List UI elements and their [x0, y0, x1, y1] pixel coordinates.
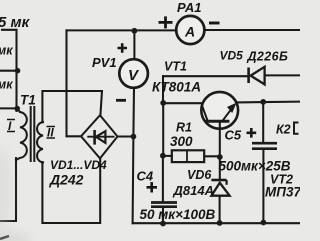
C4 plus sign: [147, 182, 158, 192]
svg-text:мк: мк: [0, 44, 13, 58]
wire: ammeter to right edge: [205, 29, 300, 31]
wire: base node to VD6: [219, 157, 221, 179]
svg-text:R1: R1: [176, 121, 192, 135]
diode VD5 triangle: [251, 67, 265, 85]
node: bus VD6 junction: [217, 220, 223, 226]
wire: left cap bank top: [2, 30, 17, 111]
svg-text:VD6: VD6: [187, 168, 212, 182]
svg-text:VD5: VD5: [220, 49, 244, 63]
svg-text:мк: мк: [0, 78, 13, 92]
node: collector rail junction: [160, 100, 166, 106]
transformer T1 primary winding I: [16, 109, 27, 160]
capacitor C5 bottom plate: [252, 147, 277, 150]
capacitor C4 top plate: [151, 201, 177, 204]
transformer T1 secondary winding II: [37, 122, 43, 163]
wire: + rail to C4: [162, 156, 164, 201]
bottom-left corner mark: [0, 236, 9, 239]
wire: bridge - output, right vertex to x133: [118, 135, 134, 137]
diode VD5 cathode bar: [247, 68, 250, 84]
wire: top dc bus to ammeter: [67, 29, 176, 31]
zener VD6 tick: [226, 180, 228, 185]
svg-text:РА1: РА1: [177, 0, 201, 15]
wire: cap stub 1: [0, 70, 18, 72]
wire: minus bus bottom: [133, 222, 300, 224]
zener VD6 triangle: [211, 183, 229, 196]
wire: C5 bottom lead: [262, 150, 264, 223]
PV1 plus sign: [118, 43, 128, 52]
wire: winding II top to bridge AC1: [42, 91, 102, 122]
svg-text:Д242: Д242: [49, 172, 84, 188]
bridge rectifier VD1-VD4 diamond: [81, 115, 118, 158]
wire: winding II bottom to bridge AC2: [42, 159, 100, 224]
svg-text:50 мк×100В: 50 мк×100В: [140, 207, 216, 222]
svg-text:А: А: [184, 24, 195, 40]
svg-text:Д814А: Д814А: [173, 183, 214, 198]
bridge inner diode triangle: [96, 131, 106, 143]
node: bridge minus junction: [131, 134, 137, 140]
svg-text:VТ1: VТ1: [164, 60, 187, 74]
wire: VT1 base lead: [219, 123, 221, 157]
transformer core: [31, 107, 35, 161]
VT1 base bar: [205, 120, 229, 123]
scan smudge bottom-left corner: [0, 232, 32, 241]
capacitor C4 bottom plate: [151, 205, 177, 208]
wire: emitter wire to right edge: [236, 101, 300, 104]
wire: PV1 bottom down to minus bus corner: [133, 88, 134, 223]
wire: C4 bottom lead: [162, 207, 164, 224]
transistor VT1 circle: [201, 92, 238, 129]
wire: VD5 branch vertical (+ rail): [162, 76, 164, 103]
wire: VD6 anode to bus: [219, 196, 221, 223]
node: bus C4 junction: [160, 221, 166, 227]
node: emitter/C5 junction: [260, 99, 266, 105]
wire: R1 left: [163, 155, 172, 157]
ammeter PA1 circle: [176, 16, 204, 44]
relay K2 coil bracket: [294, 123, 299, 134]
winding I overline/underline: [7, 120, 15, 132]
wire: + rail middle: [162, 103, 164, 156]
node: R1/C4 rail junction: [160, 153, 166, 159]
scan smudge left edge: [0, 148, 11, 232]
winding II overline/underline: [47, 127, 56, 139]
wire: VD5 right segment: [265, 74, 300, 76]
VT1 emitter arrowhead: [227, 103, 237, 113]
wire: C5 top lead: [262, 102, 264, 142]
wire: VD5 left segment: [163, 75, 248, 77]
svg-text:VD1...VD4: VD1...VD4: [50, 158, 107, 172]
wire: left vertical lower + bottom stub: [0, 158, 16, 221]
PV1 minus sign: [116, 99, 126, 102]
svg-text:Д226Б: Д226Б: [247, 50, 289, 64]
VT1 collector line: [202, 105, 208, 121]
PA1 minus sign: [209, 22, 220, 25]
wire: bridge + output, left vertex to top wire: [67, 30, 82, 136]
svg-text:PV1: PV1: [92, 55, 117, 70]
wire: R1 right to base: [204, 155, 220, 157]
svg-text:300: 300: [170, 134, 193, 149]
bridge inner diode wire: [87, 136, 114, 138]
VT1 emitter line with arrow: [223, 106, 235, 121]
svg-text:К2: К2: [276, 122, 291, 136]
wire: cap stub 2: [0, 107, 18, 109]
C5 plus sign: [247, 128, 257, 138]
svg-text:МП37: МП37: [265, 185, 300, 200]
resistor R1 inner mark: [186, 151, 188, 163]
node: PV1 top tap: [132, 28, 138, 34]
svg-text:С5: С5: [225, 128, 242, 143]
wire: collector wire: [163, 102, 202, 104]
svg-text:КТ801А: КТ801А: [152, 80, 201, 95]
voltmeter PV1 circle: [119, 59, 148, 88]
zener VD6 cathode bar: [211, 179, 226, 182]
node: cap stub 2 junction: [14, 106, 20, 112]
bridge inner diode cathode bar: [93, 130, 96, 145]
node: cap stub 1 junction: [15, 68, 21, 74]
svg-text:5 мк: 5 мк: [0, 14, 31, 31]
resistor R1 body: [172, 150, 204, 162]
svg-text:Т1: Т1: [20, 93, 36, 108]
PA1 plus sign: [159, 16, 173, 28]
svg-text:С4: С4: [137, 169, 154, 184]
svg-text:500мк×25В: 500мк×25В: [219, 159, 291, 174]
node: bus C5 junction: [261, 220, 267, 226]
node: base/R1 junction: [217, 154, 223, 160]
capacitor C5 top plate: [252, 142, 277, 145]
wire: PV1 tap from top bus: [133, 31, 135, 59]
